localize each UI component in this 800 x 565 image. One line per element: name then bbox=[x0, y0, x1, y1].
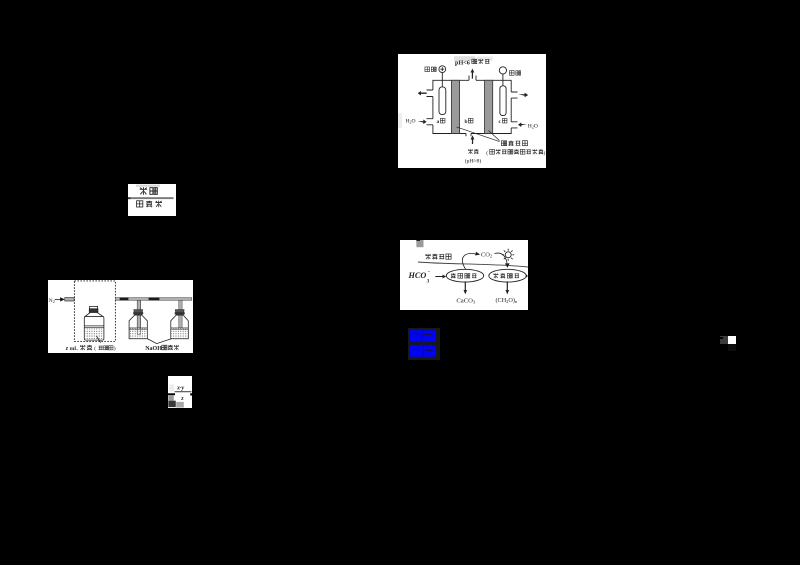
right edge arrowhead bbox=[526, 274, 528, 277]
wash bottle 1 bbox=[129, 300, 147, 338]
bottom inlet stubs bbox=[466, 134, 471, 137]
right bottom port bbox=[511, 122, 517, 128]
tiny gray+white mark bbox=[720, 336, 736, 345]
海洋表面 bbox=[425, 253, 431, 259]
scan artifact squares bbox=[416, 240, 420, 243]
down arrow 1 bbox=[464, 281, 468, 294]
membrane pointer lines bbox=[457, 127, 500, 142]
sun bbox=[502, 248, 514, 260]
left bottom port bbox=[427, 119, 433, 125]
sample bottle bbox=[84, 306, 104, 340]
svg-text:CO2: CO2 bbox=[481, 251, 492, 258]
top up arrow bbox=[471, 69, 475, 79]
membrane 2 bbox=[485, 80, 493, 133]
ellipse 光合作用 bbox=[489, 269, 526, 282]
svg-text:z: z bbox=[180, 396, 184, 402]
svg-text:): ) bbox=[114, 345, 116, 352]
curve arrow up to CO2 bbox=[462, 253, 476, 268]
svg-text:): ) bbox=[544, 150, 546, 157]
right arrows bbox=[518, 93, 528, 98]
svg-text:(pH≈8): (pH≈8) bbox=[465, 158, 482, 165]
svg-text:(: ( bbox=[486, 150, 488, 157]
right top port bbox=[511, 92, 517, 98]
left arrows bbox=[418, 91, 427, 96]
svg-text:b: b bbox=[465, 119, 468, 125]
blue highlighted block bbox=[408, 328, 440, 360]
阳离子膜 label bbox=[501, 141, 506, 146]
svg-text:a: a bbox=[437, 119, 440, 125]
arrow to ellipse1 bbox=[435, 274, 446, 278]
syringe tube bbox=[65, 297, 74, 300]
ellipse 钙化作用 bbox=[446, 269, 483, 282]
svg-text:(CH2O)n: (CH2O)n bbox=[496, 296, 518, 303]
svg-text:−: − bbox=[428, 270, 431, 275]
svg-text:H2O: H2O bbox=[528, 123, 538, 129]
wash bottle 2 bbox=[171, 300, 189, 338]
label 电源 left bbox=[425, 67, 430, 72]
sea surface line bbox=[418, 262, 528, 267]
叶绿体 bbox=[137, 201, 143, 207]
svg-text:(: ( bbox=[94, 345, 96, 352]
V pointer lines bbox=[147, 338, 172, 343]
svg-text:pH<6: pH<6 bbox=[455, 59, 470, 66]
cell outline bbox=[427, 76, 518, 137]
光能 bbox=[140, 187, 148, 195]
top outlet stubs bbox=[469, 76, 476, 81]
svg-text:c: c bbox=[499, 119, 502, 125]
diagram 4 : ocean carbon cycle image bbox=[400, 240, 528, 311]
pointer to label bbox=[96, 336, 100, 343]
label 电源 right bbox=[509, 71, 514, 76]
fraction line bbox=[128, 197, 174, 199]
svg-text:H2O: H2O bbox=[406, 119, 416, 125]
left top port bbox=[427, 90, 433, 97]
bottom up arrow bbox=[471, 135, 475, 144]
svg-text:NaOH: NaOH bbox=[145, 346, 162, 352]
diagram 3 : N2 purge + wash bottles image bbox=[48, 280, 193, 354]
power circle + bbox=[439, 66, 446, 73]
（只允许阳离子通过） bbox=[486, 149, 545, 156]
svg-text:3: 3 bbox=[426, 279, 430, 284]
down arrow 2 bbox=[506, 281, 510, 294]
svg-text:CaCO3: CaCO3 bbox=[456, 297, 475, 304]
fraction x·y/z image bbox=[168, 376, 192, 408]
electrode a (anode) bbox=[439, 87, 446, 115]
svg-text:x·y: x·y bbox=[176, 385, 185, 391]
hidden defs: fake CJK glyph strokes bbox=[0, 0, 1, 1]
membrane 1 bbox=[451, 80, 459, 133]
海水 bottom label bbox=[468, 149, 473, 154]
dashed enclosure bbox=[74, 280, 115, 341]
svg-text:HCO: HCO bbox=[408, 271, 427, 280]
svg-text:z: z bbox=[65, 346, 69, 352]
electrode c (cathode) bbox=[500, 86, 506, 116]
diagram 1 : electrolysis cell image bbox=[398, 54, 546, 168]
curve arrow down to ellipse2 bbox=[495, 253, 508, 265]
faint scan smudges bbox=[454, 56, 475, 61]
horizontal tube bbox=[115, 297, 191, 300]
svg-text:mL: mL bbox=[70, 346, 78, 352]
svg-text:N2: N2 bbox=[49, 298, 55, 304]
diagram 2 : 光能/叶绿体 fraction image bbox=[128, 184, 176, 216]
